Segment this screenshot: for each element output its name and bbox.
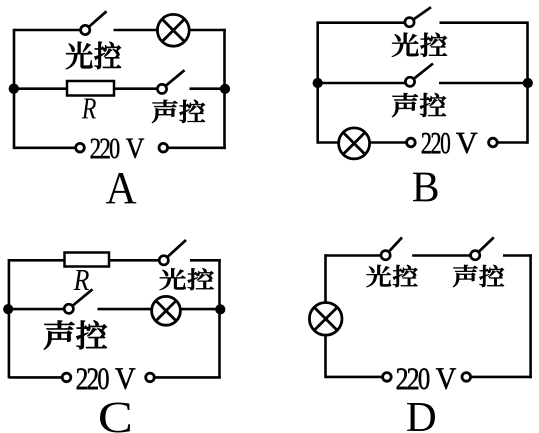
node B-left junction — [313, 78, 323, 88]
wire C switch-to-corner — [190, 259, 221, 262]
label 220 V (C) — [77, 368, 136, 389]
battery terminal right (D) — [462, 373, 471, 382]
wire D top-left segment — [326, 254, 382, 257]
node C-left junction — [3, 304, 13, 314]
label 220 V (D) — [397, 368, 456, 389]
label "声控 (C)" — [44, 320, 107, 349]
battery terminal left (C) — [62, 373, 71, 382]
wire D between-switches segment — [412, 254, 470, 257]
switch 光控 (A) — [81, 11, 107, 34]
battery terminal left (D) — [383, 373, 392, 382]
switch 声控 (B) — [405, 64, 433, 87]
battery terminal right (B) — [489, 138, 498, 147]
node A-right junction — [220, 84, 230, 94]
battery terminal right (C) — [146, 373, 155, 382]
wire C mid-left segment — [9, 308, 64, 311]
wire B top-right segment — [440, 21, 528, 24]
label R (A) — [82, 98, 96, 118]
resistor R (C) — [65, 253, 110, 267]
resistor R (A) — [67, 81, 114, 96]
wire A right vertical — [223, 29, 226, 149]
battery terminal left (A) — [76, 143, 85, 152]
wire C switch-to-lamp — [98, 308, 152, 311]
wire B mid-right segment — [439, 82, 528, 85]
wire C right vertical — [218, 259, 221, 378]
lamp (B) — [339, 128, 370, 159]
lamp (D) — [309, 303, 342, 336]
switch 光控 (B) — [405, 7, 431, 27]
node B-right junction — [523, 78, 533, 88]
label "声控 (B)" — [392, 93, 446, 117]
wire A left vertical — [13, 29, 16, 149]
wire D bottom-right segment — [471, 376, 532, 379]
label "光控 (B)" — [392, 33, 447, 57]
label 220 V (B) — [422, 133, 477, 154]
wire C lamp-to-node — [181, 308, 220, 311]
wire A mid-left segment — [14, 87, 67, 90]
wire D right vertical — [529, 254, 532, 378]
label "光控 (C)" — [160, 268, 214, 290]
battery terminal left (B) — [407, 138, 416, 147]
label "光控 (A)" — [66, 42, 121, 69]
label "声控 (A)" — [152, 100, 205, 123]
battery terminal right (A) — [159, 143, 168, 152]
wire C left vertical — [8, 259, 11, 378]
label 220 V (A) — [91, 139, 144, 159]
label D — [407, 403, 435, 431]
wire B left vertical — [316, 21, 319, 143]
wire A switch-to-lamp — [114, 29, 159, 32]
wire A bottom-right segment — [168, 147, 226, 150]
wire A bottom-left segment — [14, 147, 76, 150]
label A — [106, 173, 136, 203]
wire B top-left segment — [318, 21, 405, 24]
wire B right vertical — [526, 21, 529, 143]
wire D bottom-left segment — [326, 376, 383, 379]
switch 声控 (A) — [157, 70, 184, 93]
label R (C) — [74, 270, 89, 290]
wire A mid-right segment — [190, 87, 225, 90]
wire D left vertical upper — [324, 254, 327, 302]
wire C top-left segment — [9, 259, 65, 262]
wire B bottom-left segment — [318, 141, 339, 144]
switch 声控 (C) — [64, 289, 92, 313]
wire A lamp-to-corner — [189, 29, 226, 32]
wire C resistor-to-switch — [109, 259, 159, 262]
wire C bottom-left segment — [9, 376, 63, 379]
switch 光控 (D) — [381, 237, 402, 259]
wire D top-right segment — [503, 254, 532, 257]
wire B bottom-right segment — [497, 141, 527, 144]
label C — [100, 403, 130, 433]
switch 光控 (C) — [159, 240, 186, 265]
label B — [413, 173, 438, 202]
node A-left junction — [9, 84, 19, 94]
label "光控 (D)" — [366, 265, 417, 287]
wire D left vertical lower — [324, 335, 327, 378]
wire B mid-left segment — [318, 82, 405, 85]
wire B lamp-to-terminal — [370, 141, 407, 144]
node C-right junction — [215, 304, 225, 314]
label "声控 (D)" — [453, 265, 504, 287]
lamp (A) — [157, 14, 189, 46]
wire A top-left segment — [14, 29, 81, 32]
wire C bottom-right segment — [154, 376, 221, 379]
wire A resistor-to-switch — [114, 87, 158, 90]
switch 声控 (D) — [471, 237, 494, 259]
lamp (C) — [152, 296, 181, 325]
